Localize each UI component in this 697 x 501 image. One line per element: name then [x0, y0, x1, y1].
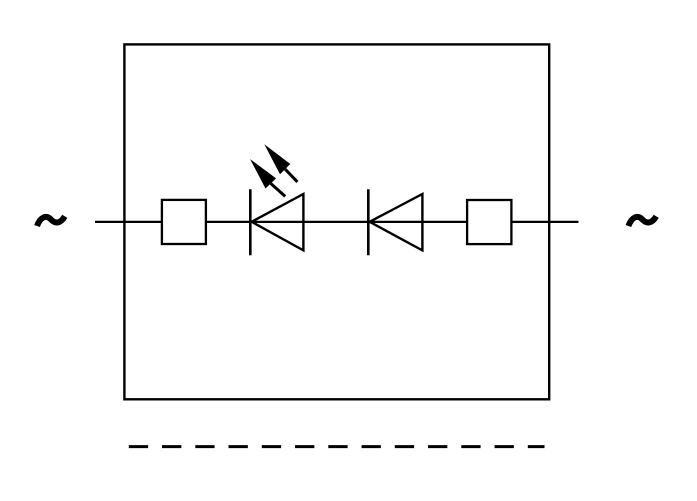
- diode cathode bar: [367, 189, 370, 255]
- AC terminal symbol right (~): [628, 216, 656, 226]
- resistor (right series element, square symbol): [467, 200, 511, 244]
- wire right lead (right resistor to right AC terminal): [510, 221, 579, 223]
- LED triangle (anode, pointing left): [252, 194, 304, 250]
- diode triangle: [370, 194, 423, 250]
- resistor (left series element, square symbol): [162, 200, 206, 244]
- AC terminal symbol left (~): [37, 216, 65, 226]
- LED emission arrow (lower left): [250, 159, 285, 196]
- wire left lead (left AC terminal to left resistor): [95, 221, 163, 223]
- module outline box: [124, 44, 549, 399]
- dashed isolation line (mounting rail marker): [129, 445, 545, 448]
- LED cathode bar: [249, 189, 252, 255]
- wire middle segment (left resistor to right resistor, passes through LED and diode): [205, 221, 469, 223]
- LED (status indicator): [250, 144, 303, 255]
- diode (series rectifier, pointing left): [368, 189, 422, 255]
- LED emission arrow (upper right): [264, 144, 297, 182]
